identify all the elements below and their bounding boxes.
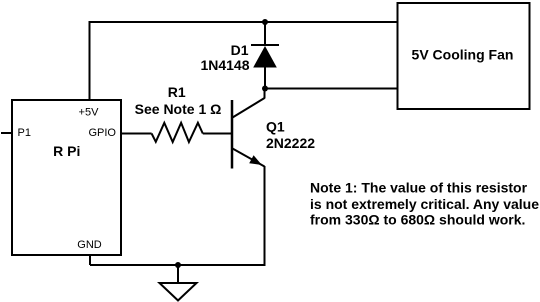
wire diode bottom segment [264, 67, 266, 89]
diode D1 [251, 45, 279, 68]
5V Cooling Fan block [398, 3, 530, 109]
node junction top [262, 19, 268, 25]
R Pi block [12, 100, 121, 255]
wire resistor to base [203, 133, 231, 135]
svg-text:R1: R1 [168, 84, 186, 100]
resistor R1 [152, 123, 203, 142]
wire GND pin stub [89, 254, 91, 265]
note text [310, 180, 539, 228]
svg-text:P1: P1 [18, 127, 31, 139]
svg-text:GPIO: GPIO [88, 127, 116, 139]
svg-text:D1: D1 [231, 42, 249, 58]
svg-text:See Note 1 Ω: See Note 1 Ω [135, 101, 222, 117]
wire GPIO to resistor [120, 133, 152, 135]
pin P1 stub wire [1, 132, 13, 134]
wire +5V from R Pi up and across to fan [90, 22, 398, 101]
node junction ground [175, 262, 181, 268]
wire ground stem [177, 265, 179, 283]
wire to fan (lower) [265, 88, 398, 90]
svg-text:is not extremely critical. Any: is not extremely critical. Any value [310, 196, 539, 212]
svg-text:from 330Ω to 680Ω should work.: from 330Ω to 680Ω should work. [310, 212, 525, 228]
svg-text:R Pi: R Pi [53, 143, 80, 159]
svg-text:Note 1: The value of this resi: Note 1: The value of this resistor [310, 180, 528, 196]
svg-text:5V Cooling Fan: 5V Cooling Fan [412, 47, 514, 63]
node junction collector [262, 86, 268, 92]
svg-text:2N2222: 2N2222 [266, 135, 315, 151]
transistor Q1 [232, 89, 265, 169]
svg-text:Q1: Q1 [266, 119, 285, 135]
ground [160, 283, 197, 301]
svg-text:1N4148: 1N4148 [200, 57, 249, 73]
svg-text:+5V: +5V [79, 106, 100, 118]
wire diode top segment [264, 22, 266, 45]
svg-text:GND: GND [77, 239, 102, 251]
wire emitter down and across to GND pin [90, 166, 265, 265]
